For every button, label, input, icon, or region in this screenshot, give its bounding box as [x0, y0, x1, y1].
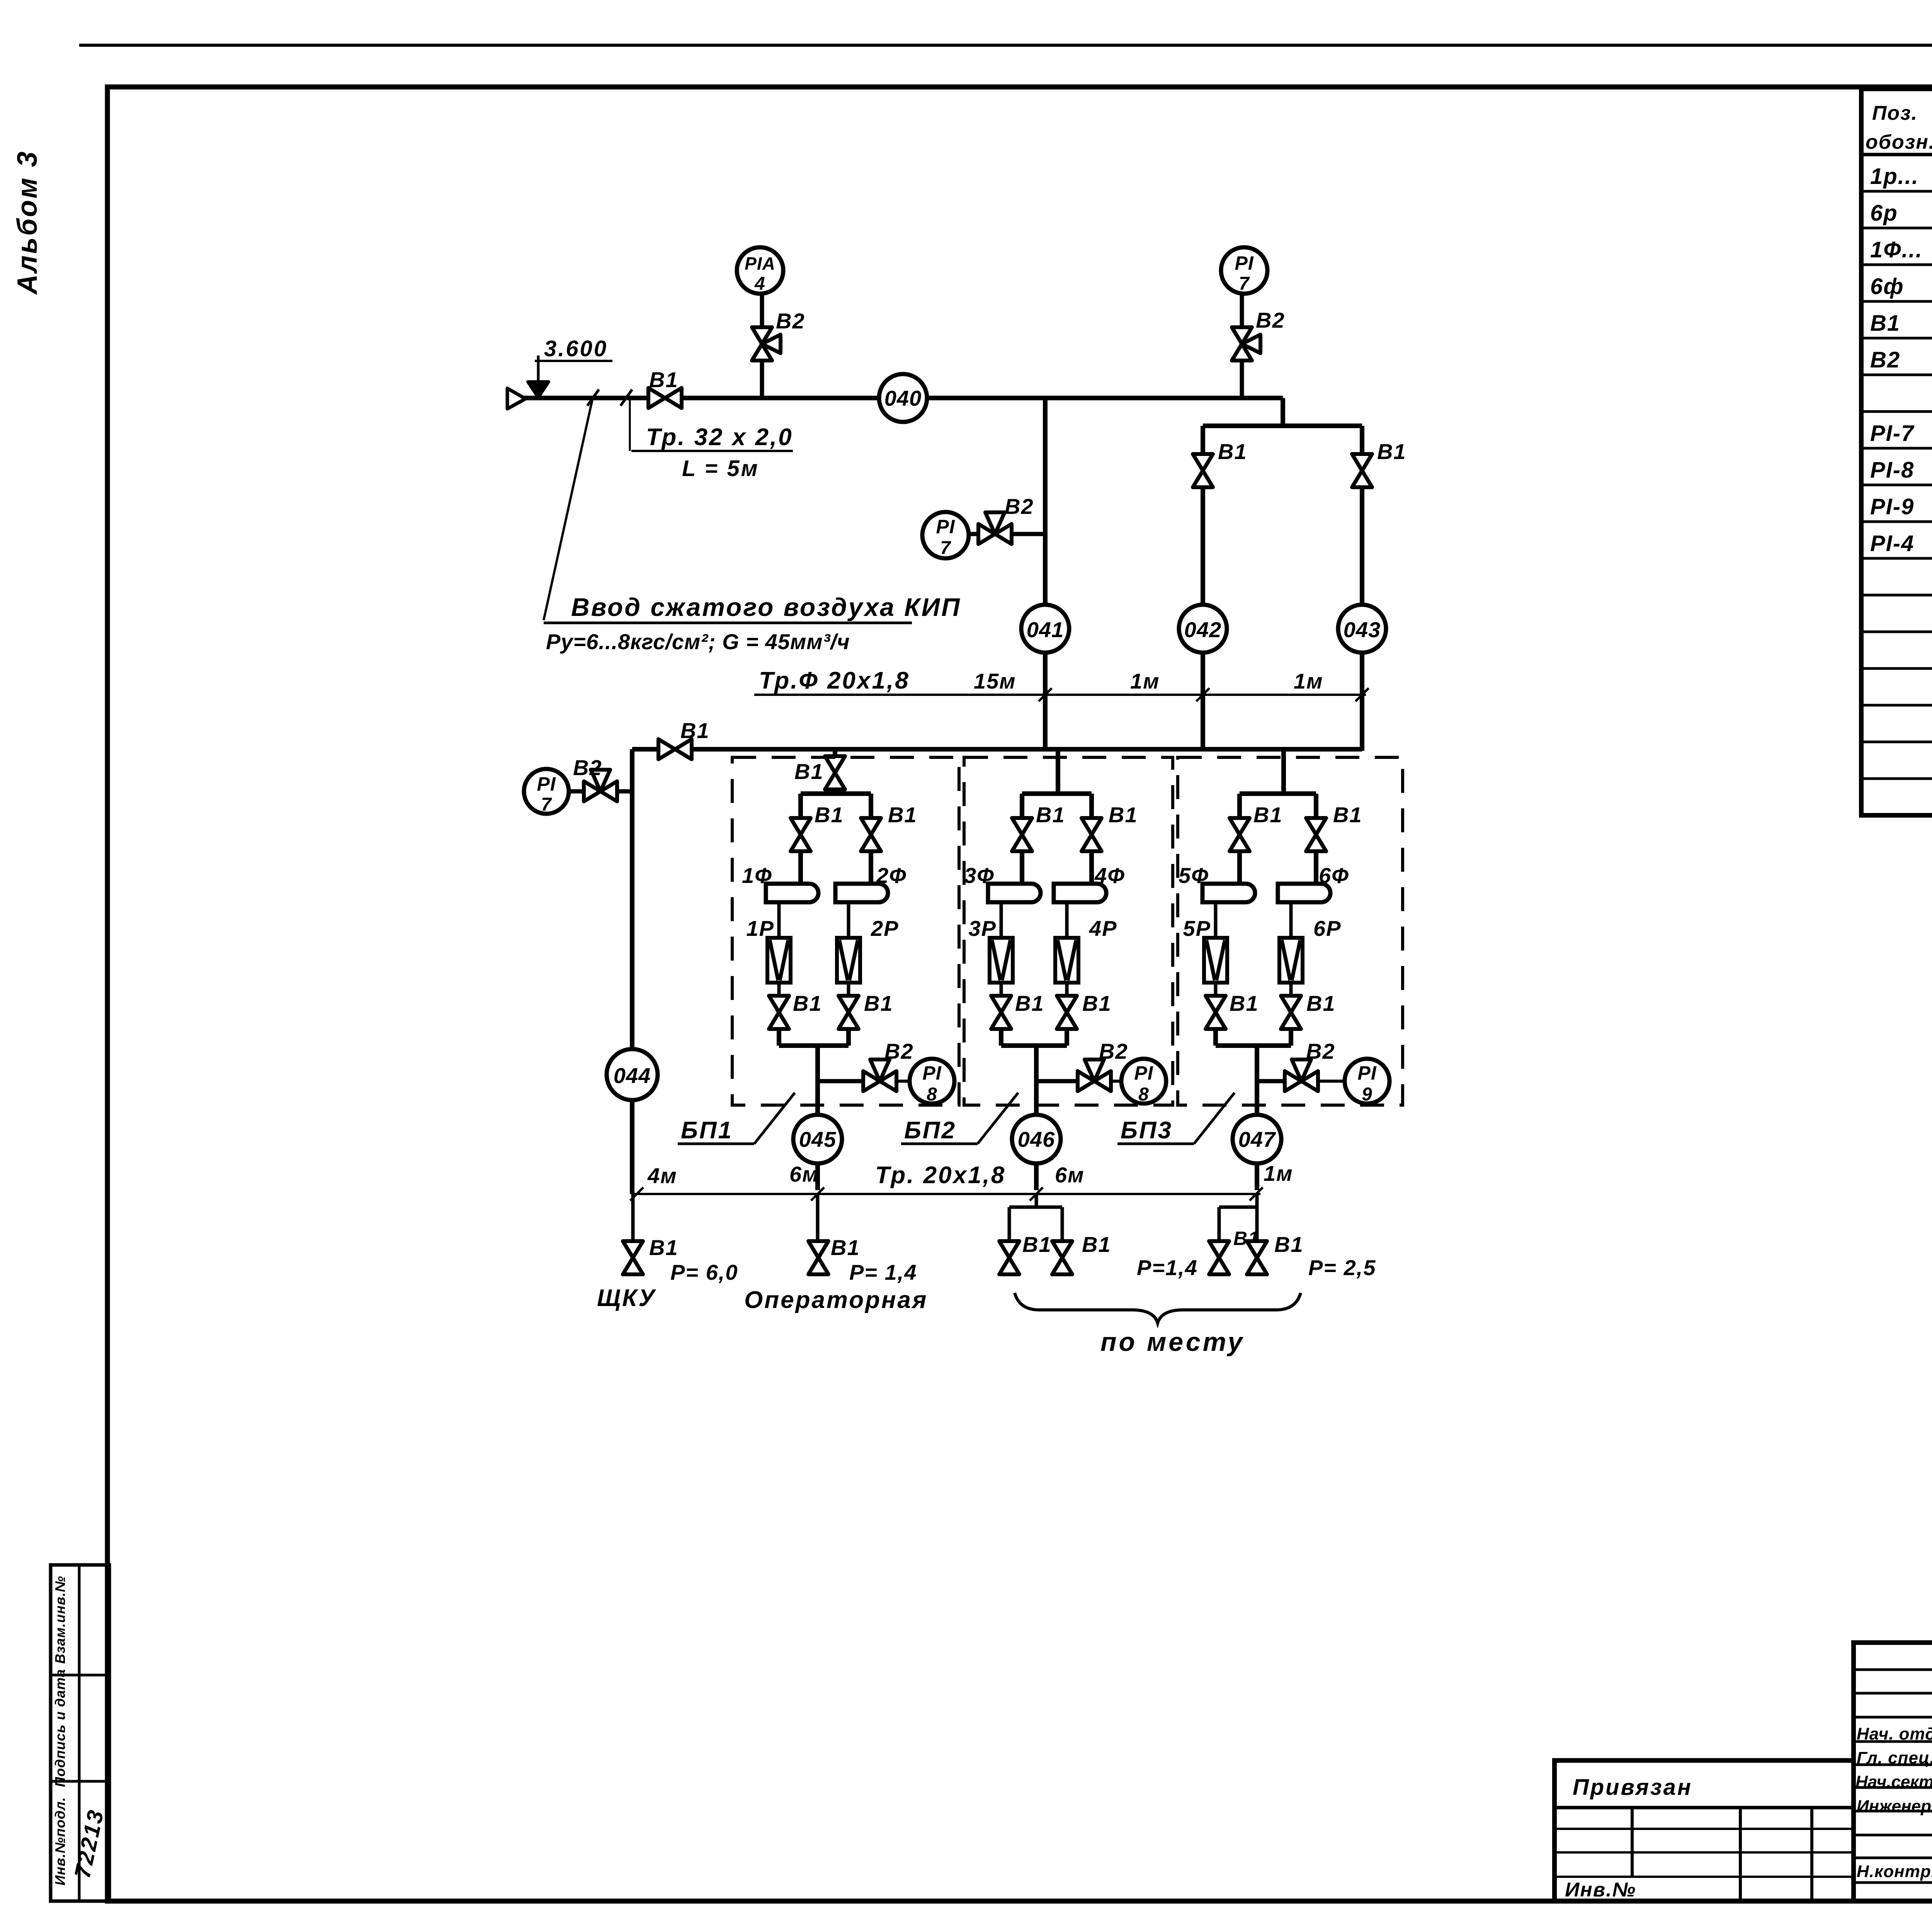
filter 3Ф	[988, 884, 1041, 902]
svg-text:1м: 1м	[1294, 669, 1323, 693]
wire filter to regulator right BP2	[1065, 902, 1069, 938]
svg-text:Р=1,4: Р=1,4	[1137, 1255, 1198, 1280]
svg-text:6Ф: 6Ф	[1319, 863, 1349, 888]
filter 1Ф	[766, 884, 818, 902]
tap B2 below PIA-4	[752, 327, 772, 344]
wire valve to filter left BP2	[1020, 851, 1024, 884]
unit BP3 feed	[1281, 749, 1286, 794]
svg-text:по месту: по месту	[1100, 1327, 1245, 1357]
gauge PI-7 right	[1221, 247, 1267, 294]
svg-text:В1: В1	[793, 991, 822, 1015]
svg-text:Р= 6,0: Р= 6,0	[670, 1260, 738, 1284]
wire valve to filter right BP2	[1089, 851, 1094, 884]
svg-text:В1: В1	[1230, 991, 1259, 1015]
svg-text:8: 8	[1138, 1084, 1149, 1105]
svg-text:PI: PI	[1134, 1062, 1153, 1084]
valve B1 out-right BP2	[1057, 996, 1077, 1012]
svg-text:Ру=6...8кгс/см²; G = 45мм³/ч: Ру=6...8кгс/см²; G = 45мм³/ч	[546, 629, 850, 654]
drop line to 041	[1043, 398, 1048, 605]
svg-text:БП1: БП1	[681, 1117, 733, 1144]
svg-text:9: 9	[1362, 1084, 1372, 1105]
wire to left valve BP2	[1020, 794, 1024, 818]
svg-text:041: 041	[1027, 617, 1064, 642]
svg-text:4Р: 4Р	[1089, 916, 1117, 940]
svg-text:6р: 6р	[1870, 201, 1898, 226]
042 branch line	[1201, 426, 1205, 605]
right end corner of main pipe	[1281, 398, 1285, 426]
regulator 5Р	[1204, 938, 1227, 983]
wire regulator to valve left BP1	[777, 983, 781, 996]
dimension Tr.32x2.0 L=5m	[629, 398, 631, 451]
svg-text:040: 040	[884, 386, 922, 410]
branch to PIA-4	[760, 294, 764, 398]
regulator 2Р	[837, 938, 860, 983]
valve B1 out-right BP3	[1281, 996, 1301, 1012]
gauge PI-9 BP3	[1345, 1059, 1389, 1104]
dashed enclosure BP3	[1178, 757, 1403, 1105]
svg-text:4: 4	[754, 274, 765, 294]
flow circle 043	[1338, 605, 1386, 653]
title block left box	[1554, 1760, 1854, 1901]
valve B1 in-right BP2	[1082, 818, 1102, 835]
dashed enclosure BP2	[964, 757, 1173, 1105]
svg-text:PI: PI	[1357, 1062, 1376, 1084]
wire to rejoin left BP3	[1213, 1029, 1218, 1046]
svg-text:7: 7	[940, 538, 951, 558]
inlet arrow	[507, 388, 526, 409]
side stamp table	[51, 1565, 109, 1901]
local consumers brace	[1015, 1293, 1301, 1323]
svg-text:PI-7: PI-7	[1870, 421, 1915, 446]
svg-text:Нач.сект.: Нач.сект.	[1855, 1772, 1932, 1791]
wire filter to regulator right BP3	[1289, 902, 1293, 938]
tap to gauge BP2	[1036, 1079, 1078, 1083]
svg-text:1Ф...: 1Ф...	[1870, 237, 1923, 262]
svg-text:В1: В1	[1082, 1232, 1111, 1257]
svg-text:1р...: 1р...	[1870, 164, 1919, 189]
svg-text:БП2: БП2	[904, 1117, 956, 1144]
valve B1 in-left BP3	[1230, 818, 1250, 835]
wire filter to regulator right BP1	[847, 902, 850, 938]
gauge PI-8 BP2	[1121, 1059, 1166, 1104]
inlet note leader	[544, 400, 592, 620]
svg-text:Р= 2,5: Р= 2,5	[1308, 1255, 1376, 1280]
svg-text:044: 044	[614, 1063, 651, 1088]
svg-text:В1: В1	[1218, 439, 1247, 464]
fork header wire BP2	[1022, 791, 1092, 796]
svg-text:Гл. спец.: Гл. спец.	[1857, 1748, 1932, 1767]
wire regulator to valve right BP1	[847, 983, 850, 996]
drops from 047	[1255, 1194, 1259, 1207]
svg-text:043: 043	[1344, 617, 1381, 642]
svg-text:5Р: 5Р	[1183, 916, 1211, 940]
svg-text:1Ф: 1Ф	[742, 863, 772, 888]
svg-text:7: 7	[541, 794, 552, 815]
svg-text:046: 046	[1018, 1127, 1055, 1151]
svg-text:В1: В1	[864, 991, 893, 1015]
svg-text:БП3: БП3	[1121, 1117, 1173, 1144]
svg-text:В1: В1	[1274, 1232, 1304, 1257]
svg-text:L = 5м: L = 5м	[682, 456, 759, 481]
svg-text:045: 045	[799, 1127, 836, 1151]
fork header wire BP1	[801, 791, 871, 796]
svg-text:042: 042	[1184, 617, 1221, 642]
tap to gauge BP3	[1257, 1079, 1285, 1083]
svg-text:1Р: 1Р	[747, 916, 775, 940]
tap valve B2 mid	[978, 524, 995, 544]
flow circle 041	[1021, 605, 1069, 653]
svg-text:обозн.: обозн.	[1866, 131, 1932, 153]
flow circle 047	[1233, 1115, 1281, 1163]
svg-text:3.600: 3.600	[544, 336, 608, 361]
flow circle 040	[879, 374, 927, 422]
distribution ticks	[630, 1187, 643, 1201]
svg-text:В1: В1	[649, 367, 679, 392]
svg-text:1м: 1м	[1264, 1161, 1293, 1185]
output drop BP2	[1034, 1046, 1039, 1115]
regulator 6Р	[1279, 938, 1303, 983]
svg-text:Операторная: Операторная	[744, 1287, 928, 1313]
svg-text:В1: В1	[1036, 803, 1065, 827]
svg-text:В2: В2	[1870, 347, 1900, 372]
output drop BP1	[815, 1046, 820, 1115]
svg-text:PIА: PIА	[745, 253, 776, 274]
svg-text:В1: В1	[1306, 991, 1336, 1015]
distribution line	[632, 1193, 1260, 1195]
wire regulator to valve left BP2	[1000, 983, 1003, 996]
tap valve B2 BP1	[863, 1071, 880, 1091]
wire filter to regulator left BP1	[777, 902, 781, 938]
svg-text:В1: В1	[1082, 991, 1112, 1015]
wire to left valve BP1	[798, 794, 803, 818]
svg-text:Тр. 32 х 2,0: Тр. 32 х 2,0	[646, 424, 793, 451]
svg-text:В1: В1	[888, 803, 917, 827]
svg-text:PI-9: PI-9	[1870, 494, 1914, 519]
gauge PI-7 left	[524, 769, 569, 814]
wire regulator to valve left BP3	[1214, 983, 1218, 996]
svg-text:Взам.инв.№: Взам.инв.№	[52, 1576, 68, 1664]
svg-text:PI: PI	[537, 773, 556, 795]
rejoin BP2	[1001, 1043, 1067, 1048]
svg-text:3Р: 3Р	[969, 916, 997, 940]
tap line to PI-7 mid	[1012, 532, 1045, 536]
regulator 1Р	[767, 938, 791, 983]
valve B1 in-left BP1	[791, 818, 811, 835]
wire to right valve BP3	[1314, 794, 1318, 818]
parts table grid	[1861, 89, 1932, 815]
svg-text:4м: 4м	[647, 1163, 677, 1188]
svg-text:В2: В2	[1306, 1039, 1335, 1063]
svg-text:4Ф: 4Ф	[1094, 863, 1125, 888]
valve B1 on 043 branch	[1352, 454, 1372, 471]
wire regulator to valve right BP2	[1065, 983, 1069, 996]
regulator 4Р	[1055, 938, 1078, 983]
043 branch line	[1360, 426, 1364, 605]
svg-text:8: 8	[927, 1084, 937, 1105]
tap valve B2 BP2	[1078, 1071, 1094, 1091]
gauge PI-7 mid	[922, 512, 969, 558]
valve B1 out-right BP1	[838, 996, 859, 1012]
wire to rejoin right BP2	[1065, 1029, 1069, 1046]
svg-text:7: 7	[1239, 274, 1250, 294]
wire filter to regulator left BP2	[1000, 902, 1003, 938]
valve B1 in-left BP2	[1012, 818, 1032, 835]
svg-text:Ввод сжатого воздуха КИП: Ввод сжатого воздуха КИП	[571, 593, 961, 621]
svg-text:PI-8: PI-8	[1870, 457, 1914, 483]
svg-text:В1: В1	[1377, 439, 1406, 464]
wire to right valve BP2	[1089, 794, 1094, 818]
svg-text:В1: В1	[1015, 991, 1044, 1015]
tap to PI-7 left	[618, 789, 632, 794]
svg-text:1м: 1м	[1130, 669, 1160, 693]
svg-text:В1: В1	[680, 718, 710, 743]
svg-text:В1: В1	[649, 1235, 679, 1260]
output drop BP3	[1255, 1046, 1259, 1115]
svg-text:3Ф: 3Ф	[964, 863, 995, 888]
fork header wire BP3	[1240, 791, 1316, 796]
svg-text:В1: В1	[815, 803, 844, 827]
valve B1 on 042 branch	[1193, 454, 1213, 471]
flow circle 045	[793, 1115, 842, 1163]
wire filter to regulator left BP3	[1214, 902, 1218, 938]
dashed enclosure BP1	[732, 757, 959, 1105]
wire to rejoin left BP1	[777, 1029, 781, 1046]
wire valve to filter right BP3	[1314, 851, 1318, 884]
gauge PI-8 BP1	[910, 1059, 954, 1104]
dimension line Tr.F20x1.8	[754, 694, 1366, 696]
rejoin BP3	[1216, 1043, 1291, 1048]
svg-text:В2: В2	[573, 755, 602, 780]
wire valve to filter left BP1	[798, 851, 803, 884]
svg-text:В2: В2	[776, 309, 805, 333]
drop to operator room	[816, 1194, 820, 1241]
svg-text:PI-4: PI-4	[1870, 531, 1914, 556]
flow circle 044	[607, 1049, 658, 1100]
svg-text:15м: 15м	[974, 669, 1016, 693]
wire to left valve BP3	[1237, 794, 1242, 818]
valve B1 on main pipe	[648, 388, 665, 408]
filter 4Ф	[1054, 884, 1106, 902]
left main drop	[630, 749, 634, 1194]
svg-text:Инженер: Инженер	[1857, 1797, 1931, 1816]
svg-text:Подпись и дата: Подпись и дата	[52, 1669, 68, 1787]
valve B1 feed BP1	[825, 756, 845, 773]
valve B1 on manifold	[658, 739, 675, 759]
flow circle 046	[1012, 1115, 1061, 1163]
svg-text:В1: В1	[794, 759, 824, 784]
svg-text:ЩКУ: ЩКУ	[597, 1285, 656, 1311]
wire to right valve BP1	[869, 794, 873, 818]
svg-text:Р= 1,4: Р= 1,4	[849, 1260, 917, 1284]
drop to SchKU	[631, 1194, 635, 1241]
regulator 3Р	[990, 938, 1013, 983]
wire to rejoin right BP1	[846, 1029, 851, 1046]
svg-text:Инв.№: Инв.№	[1565, 1879, 1636, 1901]
unit BP2 feed	[1056, 749, 1060, 794]
valve B1 in-right BP3	[1306, 818, 1326, 835]
wire valve to filter left BP3	[1237, 851, 1242, 884]
svg-text:В2: В2	[1005, 494, 1034, 519]
svg-text:Инв.№подл.: Инв.№подл.	[52, 1797, 68, 1885]
svg-text:В1: В1	[1022, 1232, 1052, 1257]
manifold pipe	[632, 747, 1362, 752]
tap valve B2 BP3	[1285, 1071, 1301, 1091]
drops from 046	[1035, 1194, 1038, 1207]
unit BP1 feed	[833, 749, 837, 794]
valve B1 out-left BP2	[991, 996, 1011, 1012]
svg-text:Альбом 3: Альбом 3	[12, 150, 43, 295]
svg-text:6ф: 6ф	[1870, 274, 1904, 299]
svg-text:2Р: 2Р	[871, 916, 899, 940]
flow circle 042	[1179, 605, 1227, 653]
valve B1 out-left BP1	[769, 996, 789, 1012]
svg-text:6Р: 6Р	[1313, 916, 1342, 940]
svg-text:PI: PI	[922, 1062, 941, 1084]
svg-text:Привязан: Привязан	[1573, 1775, 1692, 1800]
svg-text:Н.контр.: Н.контр.	[1857, 1862, 1932, 1881]
filter 2Ф	[835, 884, 888, 902]
wire to rejoin right BP3	[1289, 1029, 1293, 1046]
svg-text:Тр.Ф 20х1,8: Тр.Ф 20х1,8	[759, 667, 910, 694]
svg-text:В1: В1	[1109, 803, 1138, 827]
filter 6Ф	[1278, 884, 1330, 902]
top rule line	[79, 44, 1932, 47]
svg-text:PI: PI	[936, 516, 955, 537]
svg-text:PI: PI	[1235, 252, 1253, 274]
wire regulator to valve right BP3	[1289, 983, 1293, 996]
gauge PIA-4	[737, 247, 783, 294]
wire to rejoin left BP2	[999, 1029, 1003, 1046]
svg-text:Тр. 20х1,8: Тр. 20х1,8	[875, 1162, 1006, 1189]
filter 5Ф	[1202, 884, 1255, 902]
valve B1 in-right BP1	[861, 818, 881, 835]
dimension ticks	[1039, 688, 1052, 701]
wire valve to filter right BP1	[869, 851, 873, 884]
tap to gauge BP1	[818, 1079, 863, 1083]
svg-text:Нач. отд: Нач. отд	[1857, 1725, 1932, 1743]
svg-text:В1: В1	[1333, 803, 1362, 827]
main air pipe	[522, 396, 1283, 400]
svg-text:В2: В2	[1099, 1039, 1128, 1063]
svg-text:2Ф: 2Ф	[876, 863, 907, 888]
svg-text:047: 047	[1238, 1127, 1276, 1151]
rejoin BP1	[779, 1043, 849, 1048]
valve B1 out-left BP3	[1206, 996, 1226, 1012]
elevation mark 3.600	[537, 355, 540, 383]
svg-text:Поз.: Поз.	[1872, 102, 1918, 124]
svg-text:В1: В1	[1253, 803, 1283, 827]
svg-text:В2: В2	[884, 1039, 914, 1063]
title block middle table	[1854, 1643, 1932, 1901]
branch to PI-7 right	[1240, 294, 1244, 398]
svg-text:6м: 6м	[789, 1162, 819, 1186]
svg-text:В1: В1	[1870, 311, 1900, 336]
svg-text:6м: 6м	[1055, 1163, 1085, 1187]
svg-text:В2: В2	[1256, 308, 1285, 332]
pipe break marks	[587, 389, 599, 406]
svg-text:В1: В1	[831, 1235, 860, 1260]
tap B2 right top	[1232, 327, 1252, 344]
svg-text:5Ф: 5Ф	[1179, 863, 1209, 888]
